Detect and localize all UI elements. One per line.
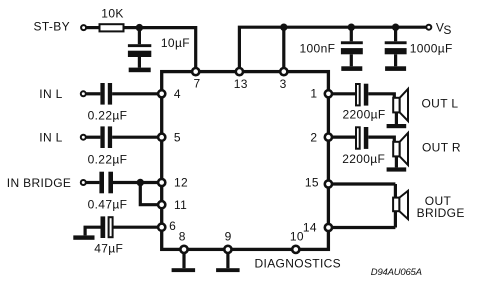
label IN L (pin 5): [39, 130, 62, 144]
capacitor 0.22uF (pin 5): [100, 126, 112, 148]
wire IN L terminal to capacitor: [86, 92, 100, 95]
capacitor 0.47uF: [99, 172, 113, 194]
svg-text:9: 9: [225, 230, 232, 244]
ground below 10uF: [129, 68, 151, 73]
pin number 7: [194, 77, 201, 91]
svg-text:10K: 10K: [101, 7, 123, 21]
svg-text:6: 6: [169, 219, 176, 233]
svg-text:S: S: [443, 23, 451, 37]
capacitor 1000uF: [385, 27, 407, 66]
wire node B to pin 11: [140, 183, 158, 205]
ground at pin 9: [216, 253, 240, 272]
pin number 1: [310, 86, 317, 100]
junction node A: [136, 24, 143, 31]
speaker OUT L: [393, 89, 408, 124]
pin number 14: [303, 221, 317, 235]
svg-text:1: 1: [310, 86, 317, 100]
svg-text:5: 5: [174, 130, 181, 144]
junction node pin 3 riser: [280, 24, 287, 31]
ground below speaker OUT R: [387, 167, 407, 171]
svg-text:IN L: IN L: [39, 87, 62, 101]
pin number 11: [174, 198, 187, 212]
value label 1000uF: [410, 42, 453, 56]
wire IN L terminal to capacitor: [86, 136, 100, 139]
ground at 47uF: [73, 227, 100, 240]
pin number 5: [174, 130, 181, 144]
svg-text:4: 4: [174, 87, 181, 101]
junction 1000uF tap: [392, 24, 399, 31]
svg-text:BRIDGE: BRIDGE: [417, 206, 465, 220]
wire pin 14 to bridge speaker: [332, 226, 395, 229]
wire pin 15 to bridge speaker: [332, 182, 395, 185]
pin 13: [236, 68, 243, 75]
drawing number D94AU065A: [371, 267, 423, 278]
pin 14: [325, 224, 332, 231]
pin number 4: [174, 87, 181, 101]
pin 4: [158, 90, 165, 97]
wire bridge vertical: [394, 184, 397, 228]
wire capacitor to pin 4: [112, 92, 158, 95]
svg-text:8: 8: [179, 230, 186, 244]
pin number 2: [310, 130, 317, 144]
terminal IN L (pin 5): [81, 135, 86, 140]
pin 1: [325, 90, 332, 97]
wire capacitor to speaker OUT L: [368, 94, 394, 99]
value label 10uF: [161, 36, 190, 50]
wire pin 13 riser to Vs rail: [239, 27, 428, 71]
capacitor 100nF: [341, 27, 363, 66]
terminal Vs: [426, 25, 431, 30]
pin number 6: [169, 219, 176, 233]
value label 47uF: [94, 242, 123, 256]
wire pin 1 to output capacitor: [332, 92, 356, 95]
svg-text:2: 2: [310, 130, 317, 144]
junction 100nF tap: [348, 24, 355, 31]
value label 0.47uF: [88, 197, 128, 211]
label ST-BY: [34, 20, 70, 34]
terminal IN BRIDGE: [81, 180, 86, 185]
pin 5: [158, 134, 165, 141]
svg-text:47µF: 47µF: [94, 242, 123, 256]
value label 2200uF (pin 1): [343, 107, 386, 121]
capacitor 0.22uF (pin 4): [100, 83, 112, 105]
wire pin 3 riser: [282, 27, 285, 71]
ground at pin 8: [172, 253, 196, 272]
pin 12: [158, 179, 165, 186]
svg-text:10µF: 10µF: [161, 36, 190, 50]
pin 9: [224, 246, 231, 253]
net label DIAGNOSTICS: [255, 257, 342, 271]
pin 11: [158, 201, 165, 208]
label OUT L: [422, 97, 459, 111]
ground below 100nF: [341, 66, 362, 71]
pin 2: [325, 134, 332, 141]
value label 2200uF (pin 2): [342, 152, 385, 166]
svg-text:7: 7: [194, 77, 201, 91]
svg-text:1000µF: 1000µF: [410, 42, 453, 56]
resistor 10K: [100, 24, 124, 31]
value label 100nF: [300, 42, 336, 56]
wire ST-BY terminal to resistor: [87, 26, 100, 29]
wire pin 2 to output capacitor: [332, 136, 356, 139]
wire 47uF to pin 6: [113, 226, 158, 229]
ground below 1000uF: [385, 66, 406, 71]
svg-text:11: 11: [174, 198, 187, 212]
junction node B: [137, 179, 144, 186]
label IN BRIDGE: [7, 176, 72, 190]
pin number 8: [179, 230, 186, 244]
pin number 3: [280, 77, 287, 91]
wire node A to pin 7: [139, 28, 195, 68]
pin 7: [192, 68, 199, 75]
svg-text:OUT L: OUT L: [422, 97, 459, 111]
svg-text:2200µF: 2200µF: [343, 107, 386, 121]
capacitor 47uF: [101, 216, 113, 238]
pin 6: [158, 224, 165, 231]
ground below speaker OUT L: [387, 124, 407, 128]
wire capacitor to speaker OUT R: [368, 137, 394, 142]
svg-text:12: 12: [174, 176, 188, 190]
capacitor 2200uF (pin 2): [356, 127, 368, 149]
label OUT R: [422, 140, 461, 154]
svg-text:OUT R: OUT R: [422, 140, 461, 154]
wire node B to pin 12: [140, 181, 158, 184]
svg-text:3: 3: [280, 77, 287, 91]
pin 3: [280, 68, 287, 75]
svg-text:0.47µF: 0.47µF: [88, 197, 128, 211]
pin 10: [292, 246, 299, 253]
label OUT BRIDGE: [417, 194, 465, 220]
svg-text:10: 10: [290, 230, 304, 244]
pin number 13: [234, 77, 248, 91]
pin number 10: [290, 230, 304, 244]
svg-text:D94AU065A: D94AU065A: [371, 267, 423, 278]
wire capacitor to node B: [113, 181, 140, 184]
pin 15: [325, 180, 332, 187]
net label Vs: [436, 20, 452, 36]
svg-text:IN L: IN L: [39, 130, 62, 144]
svg-text:15: 15: [305, 176, 319, 190]
wire IN BRIDGE terminal to capacitor: [86, 181, 99, 184]
svg-text:100nF: 100nF: [300, 42, 336, 56]
value label 0.22uF (pin 5): [88, 152, 128, 166]
terminal ST-BY: [81, 25, 86, 30]
speaker OUT BRIDGE: [393, 191, 408, 219]
svg-text:14: 14: [303, 221, 317, 235]
value label 10K: [101, 7, 123, 21]
wire capacitor to pin 5: [112, 136, 158, 139]
svg-text:IN BRIDGE: IN BRIDGE: [7, 176, 72, 190]
capacitor 2200uF (pin 1): [356, 84, 368, 106]
svg-text:ST-BY: ST-BY: [34, 20, 70, 34]
svg-text:DIAGNOSTICS: DIAGNOSTICS: [255, 257, 342, 271]
capacitor 10uF: [128, 28, 151, 68]
pin number 9: [225, 230, 232, 244]
svg-text:0.22µF: 0.22µF: [88, 152, 128, 166]
wire resistor to node A: [124, 26, 140, 29]
speaker OUT R: [393, 133, 408, 168]
svg-text:2200µF: 2200µF: [342, 152, 385, 166]
pin number 15: [305, 176, 319, 190]
pin 8: [180, 246, 187, 253]
svg-text:13: 13: [234, 77, 248, 91]
pin number 12: [174, 176, 188, 190]
IC box U1: [162, 72, 329, 250]
terminal IN L (pin 4): [81, 91, 86, 96]
value label 0.22uF (pin 4): [88, 108, 128, 122]
label IN L (pin 4): [39, 87, 62, 101]
svg-text:0.22µF: 0.22µF: [88, 108, 128, 122]
